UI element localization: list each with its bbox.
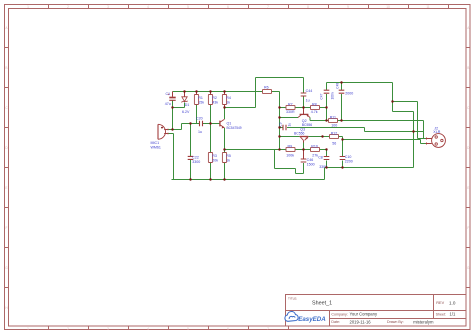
connector J2 XLR	[426, 126, 446, 147]
svg-text:100: 100	[331, 124, 337, 128]
svg-text:C48: C48	[335, 83, 339, 89]
transistor Q3	[294, 128, 308, 143]
svg-text:9: 9	[347, 5, 349, 9]
svg-text:Date:: Date:	[331, 320, 340, 324]
svg-text:56: 56	[332, 141, 336, 145]
svg-text:E: E	[467, 186, 469, 190]
svg-text:E: E	[5, 186, 7, 190]
svg-text:47u: 47u	[165, 102, 171, 106]
title block text	[288, 296, 456, 324]
wire C9 output row	[280, 128, 424, 132]
svg-text:C22: C22	[192, 156, 199, 160]
capacitor C22	[188, 156, 201, 165]
svg-text:11: 11	[426, 5, 430, 9]
svg-text:C8: C8	[318, 156, 323, 160]
svg-text:R8: R8	[312, 102, 317, 106]
svg-text:2: 2	[67, 327, 69, 331]
resistor R2	[208, 92, 218, 105]
svg-text:6: 6	[227, 5, 229, 9]
svg-text:43k: 43k	[212, 101, 218, 105]
transistor Q1	[220, 119, 242, 130]
svg-text:C47: C47	[319, 93, 323, 99]
capacitor C20	[196, 116, 203, 134]
wire mic output step to base row	[169, 124, 220, 130]
resistor R8	[311, 102, 320, 114]
wire R5 / Q1 emitter column	[224, 128, 226, 180]
svg-text:330R: 330R	[286, 110, 295, 114]
svg-text:REV: REV	[436, 301, 444, 305]
svg-text:20k: 20k	[212, 159, 218, 163]
svg-text:MIC1: MIC1	[151, 141, 160, 145]
svg-text:Q1: Q1	[227, 121, 232, 125]
svg-text:XLR: XLR	[433, 130, 440, 134]
resistor R11	[329, 115, 338, 127]
wire C10 column	[342, 140, 344, 168]
svg-text:1: 1	[27, 5, 29, 9]
svg-text:7: 7	[267, 5, 269, 9]
svg-text:1k: 1k	[226, 159, 230, 163]
svg-text:C10: C10	[345, 155, 352, 159]
capacitor C47	[319, 90, 334, 99]
wire collector loop to C44	[225, 78, 304, 108]
svg-text:6: 6	[227, 327, 229, 331]
wire R12 output to XLR	[343, 137, 427, 144]
wire VCC top rail	[173, 92, 280, 108]
svg-text:4.7k: 4.7k	[311, 110, 318, 114]
wire Q3 base row	[280, 136, 343, 138]
EasyEDA logo	[285, 311, 326, 323]
wire feedback jog to C46 bottom	[275, 150, 304, 174]
resistor R4	[222, 92, 231, 108]
wire R11 output row	[338, 121, 427, 139]
wire left bus column	[279, 108, 281, 150]
svg-text:F: F	[6, 226, 8, 230]
svg-text:2019-11-16: 2019-11-16	[350, 319, 372, 324]
wire R1 column	[196, 105, 198, 124]
capacitor C8	[318, 156, 329, 170]
svg-text:Company:: Company:	[331, 312, 347, 316]
wire Q3 collector tail	[303, 143, 305, 150]
svg-text:BC556: BC556	[294, 131, 304, 135]
svg-text:R3: R3	[212, 154, 217, 158]
svg-text:C9: C9	[279, 122, 283, 126]
svg-text:1.0: 1.0	[449, 300, 456, 305]
svg-text:misteralym: misteralym	[413, 319, 434, 324]
svg-text:Sheet_1: Sheet_1	[312, 301, 332, 307]
svg-text:WM61: WM61	[151, 146, 161, 150]
junction dots	[171, 81, 414, 180]
wire top right ground run	[327, 83, 427, 168]
capacitor C48	[335, 83, 353, 96]
svg-text:R4: R4	[226, 96, 231, 100]
svg-text:1u: 1u	[287, 123, 291, 127]
zener diode D1	[182, 92, 190, 114]
transistor Q2	[298, 108, 312, 127]
resistor R7	[286, 102, 295, 114]
microphone MIC1	[151, 124, 169, 149]
wire C1/D1 bottom node to mic	[173, 101, 185, 130]
svg-text:6.2V: 6.2V	[182, 110, 190, 114]
svg-text:R6: R6	[264, 85, 269, 89]
wire C8 column	[326, 150, 328, 168]
title block	[286, 295, 467, 327]
wire Q2 base/collector connections	[280, 118, 329, 121]
svg-text:1/1: 1/1	[450, 312, 456, 317]
wire Q1 collector to R4	[224, 105, 226, 120]
svg-text:1: 1	[27, 327, 29, 331]
svg-text:5: 5	[187, 327, 189, 331]
svg-text:BC556: BC556	[302, 123, 312, 127]
wire bottom ground rail	[172, 168, 325, 180]
svg-text:1u: 1u	[306, 98, 310, 102]
svg-text:R2: R2	[212, 96, 217, 100]
capacitor C46	[301, 150, 315, 167]
svg-text:15k: 15k	[198, 101, 204, 105]
resistor R3	[208, 153, 218, 163]
svg-text:2200: 2200	[345, 160, 353, 164]
svg-text:C44: C44	[306, 89, 313, 93]
wire C22 column	[190, 124, 192, 180]
svg-text:1u: 1u	[198, 130, 202, 134]
svg-text:2: 2	[67, 5, 69, 9]
svg-text:100k: 100k	[286, 154, 294, 158]
resistor R9	[286, 144, 295, 157]
capacitor C9	[279, 122, 292, 130]
wire R2/R3 column	[210, 105, 212, 180]
wire emitter feedback row	[225, 149, 280, 151]
svg-text:7: 7	[267, 327, 269, 331]
svg-text:R1: R1	[198, 96, 203, 100]
svg-text:B: B	[5, 66, 7, 70]
svg-text:D1: D1	[185, 103, 190, 107]
resistor R1	[194, 92, 204, 105]
svg-text:5: 5	[187, 5, 189, 9]
capacitor C10	[340, 155, 353, 164]
svg-text:F: F	[467, 226, 469, 230]
svg-text:3: 3	[107, 327, 109, 331]
wire mid-right ground row	[325, 167, 414, 169]
svg-text:R7: R7	[288, 102, 293, 106]
svg-text:3300: 3300	[192, 160, 200, 164]
resistor R6	[263, 85, 272, 93]
svg-text:Drawn By:: Drawn By:	[387, 320, 404, 324]
svg-text:1k: 1k	[226, 101, 230, 105]
wire R9/R10 row	[280, 149, 327, 151]
svg-text:B: B	[467, 66, 469, 70]
svg-text:R11: R11	[330, 115, 336, 119]
svg-text:R10: R10	[311, 144, 318, 148]
svg-text:BC547549: BC547549	[227, 126, 242, 130]
svg-text:R5: R5	[226, 154, 231, 158]
svg-text:TITLE:: TITLE:	[288, 296, 297, 300]
svg-text:100n: 100n	[330, 92, 334, 99]
svg-text:4: 4	[147, 327, 149, 331]
svg-text:R12: R12	[331, 131, 338, 135]
wire C48 column	[341, 83, 343, 121]
svg-text:C46: C46	[307, 158, 314, 162]
resistor R12	[330, 131, 339, 145]
svg-text:C1: C1	[166, 92, 171, 96]
wire C47 column	[326, 83, 328, 121]
svg-text:4: 4	[147, 5, 149, 9]
resistor R10	[311, 144, 320, 157]
svg-text:3: 3	[107, 5, 109, 9]
svg-text:2000: 2000	[345, 91, 353, 95]
svg-text:10: 10	[386, 5, 390, 9]
wire R7/R8 row	[280, 96, 327, 108]
resistor R5	[222, 153, 231, 163]
svg-text:R9: R9	[288, 144, 293, 148]
svg-text:1500: 1500	[307, 163, 315, 167]
capacitor C44	[301, 89, 312, 102]
wire mic ground to bottom rail	[169, 134, 174, 180]
svg-text:C20: C20	[196, 116, 203, 120]
svg-text:Your Company: Your Company	[350, 312, 378, 317]
capacitor C1	[165, 92, 176, 107]
svg-text:Sheet:: Sheet:	[436, 313, 446, 317]
svg-text:EasyEDA: EasyEDA	[298, 316, 326, 323]
svg-text:8: 8	[307, 5, 309, 9]
